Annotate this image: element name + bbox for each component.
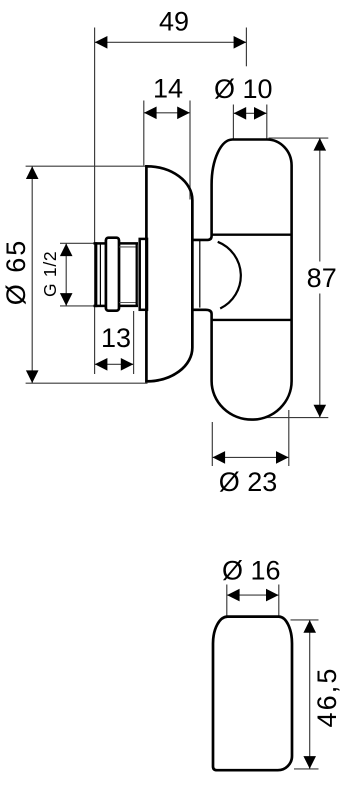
- svg-text:13: 13: [101, 323, 131, 353]
- arrow bottom 87: [314, 405, 327, 418]
- dimension line diameter 23: [212, 456, 288, 458]
- extension line top of dim 87: [269, 137, 329, 139]
- dimension line G 1/2: [65, 243, 67, 306]
- svg-text:G 1/2: G 1/2: [40, 251, 60, 297]
- dimension line 13: [95, 363, 134, 365]
- arrow right 13: [121, 358, 134, 371]
- arrow top G 1/2: [60, 244, 73, 257]
- svg-text:Ø 10: Ø 10: [214, 74, 273, 104]
- svg-text:Ø 16: Ø 16: [222, 556, 281, 586]
- thread root line: [99, 243, 101, 306]
- arrow left 14: [144, 107, 157, 120]
- tube end step line: [136, 243, 138, 306]
- handle silhouette with neck notch: [193, 140, 292, 420]
- tube top edge: [119, 242, 138, 245]
- arrow right diameter 23: [276, 451, 289, 464]
- tube bottom inner line: [119, 302, 136, 304]
- arrow right 49: [234, 36, 247, 49]
- collar ring: [106, 238, 119, 311]
- valve body dome outline: [146, 166, 192, 381]
- extension line top of dim diameter 65: [26, 165, 148, 167]
- cone arc inside handle: [218, 242, 241, 309]
- arrow left 13: [95, 358, 108, 371]
- extension line bottom of dim diameter 65: [26, 382, 148, 384]
- extension line left of dim diameter 16: [226, 585, 228, 616]
- extension line right of dim diameter 10: [266, 105, 268, 139]
- arrow bottom 46,5: [303, 756, 316, 769]
- spigot flange: [140, 239, 147, 310]
- extension line bottom of dim 46,5: [294, 768, 319, 770]
- arrow left diameter 10: [234, 107, 247, 120]
- neck inner vertical line: [199, 241, 201, 308]
- arrow right 14: [177, 107, 190, 120]
- tube top inner line: [119, 246, 136, 248]
- arrow top diameter 65: [26, 166, 39, 179]
- arrow left 49: [95, 36, 108, 49]
- extension line left of dim diameter 10: [232, 105, 234, 139]
- extension line left of dim diameter 23: [211, 422, 213, 466]
- arrow right diameter 16: [266, 589, 279, 602]
- extension line left of dim 14: [143, 101, 145, 166]
- joint line lower across handle: [212, 319, 292, 321]
- dimension line 14: [144, 112, 190, 114]
- extension line right of dim 49: [245, 28, 247, 67]
- extension line left of dim 49 (long, down to dim 13): [94, 28, 96, 375]
- tube bottom edge: [119, 305, 138, 308]
- thread crest bottom edge: [94, 305, 106, 308]
- arrow left diameter 16: [227, 589, 240, 602]
- dimension line diameter 65: [31, 166, 33, 383]
- svg-text:14: 14: [153, 74, 183, 104]
- bottom view cap outline: [213, 617, 292, 771]
- dimension line diameter 16: [227, 594, 279, 596]
- dimension line diameter 10: [233, 112, 266, 114]
- extension line bottom of dim 87: [262, 417, 328, 419]
- thread crest top edge: [94, 242, 106, 245]
- extension line bottom of dim G 1/2: [60, 305, 94, 307]
- extension line top of dim G 1/2: [60, 242, 94, 244]
- joint line upper across handle: [212, 233, 292, 235]
- svg-text:49: 49: [159, 7, 189, 37]
- extension line right of dim diameter 16: [278, 585, 280, 616]
- thread left cap line: [95, 242, 98, 307]
- arrow left diameter 23: [213, 451, 226, 464]
- arrow top 46,5: [303, 620, 316, 633]
- arrow right diameter 10: [254, 107, 267, 120]
- arrow top 87: [314, 138, 327, 151]
- svg-text:46,5: 46,5: [312, 667, 342, 728]
- extension line right of dim 14: [189, 101, 191, 200]
- arrow bottom diameter 65: [26, 370, 39, 383]
- dimension line 87 upper segment: [319, 138, 321, 262]
- extension line right of dim 13: [133, 311, 135, 374]
- dimension line 49: [95, 41, 247, 43]
- dimension line 87 lower segment: [319, 294, 321, 418]
- arrow bottom G 1/2: [60, 293, 73, 306]
- extension line top of dim 46,5: [291, 619, 319, 621]
- svg-text:Ø 23: Ø 23: [219, 467, 278, 497]
- dimension line 46,5: [309, 620, 311, 769]
- svg-text:Ø 65: Ø 65: [1, 239, 31, 306]
- svg-text:87: 87: [307, 263, 337, 293]
- extension line right of dim diameter 23: [288, 410, 290, 466]
